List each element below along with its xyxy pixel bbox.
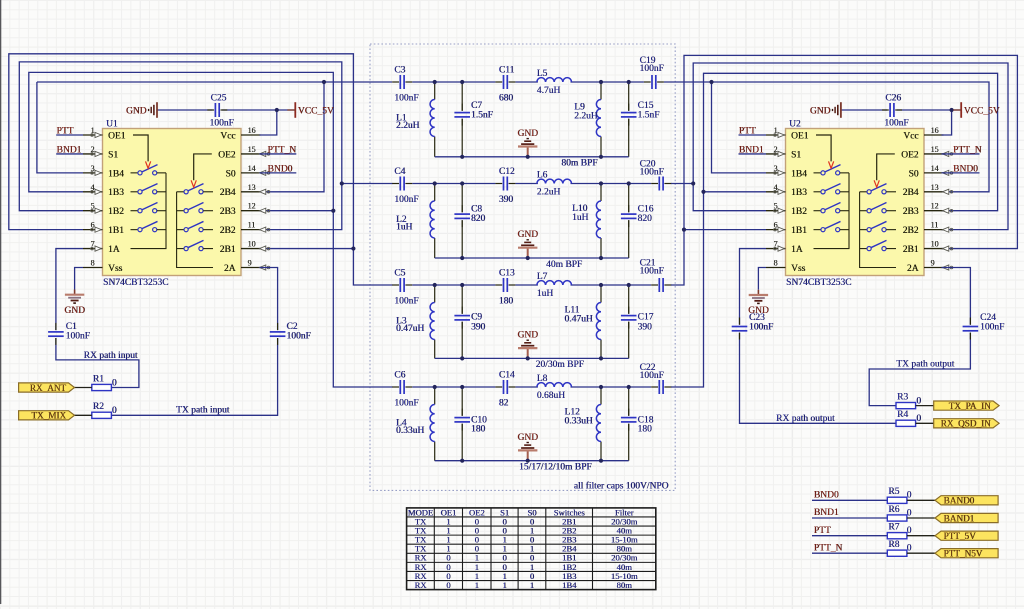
svg-text:L6: L6 — [537, 171, 548, 181]
inductor L7 — [537, 281, 572, 285]
wire 20/30m BPF shunt left capacitor branch — [461, 285, 463, 314]
svg-text:PTT_N5V: PTT_N5V — [944, 549, 983, 559]
wire U2 pin3 1B4 up to 80m row — [712, 82, 767, 173]
svg-text:0.47uH: 0.47uH — [396, 324, 424, 334]
svg-text:1B4: 1B4 — [562, 580, 577, 590]
svg-text:R3: R3 — [897, 392, 908, 402]
capacitor C26 — [890, 103, 894, 117]
switch 2B4 internal — [177, 191, 184, 193]
svg-text:4.7uH: 4.7uH — [537, 86, 561, 96]
svg-text:S0: S0 — [908, 169, 918, 179]
pin 3 1B4 — [83, 172, 103, 174]
svg-text:Vss: Vss — [108, 264, 123, 274]
svg-text:2B1: 2B1 — [220, 245, 236, 255]
capacitor C15 — [621, 113, 637, 117]
svg-text:40m BPF: 40m BPF — [546, 260, 582, 270]
svg-text:Vss: Vss — [791, 264, 806, 274]
pin 9 2A — [241, 267, 261, 269]
svg-text:1B4: 1B4 — [791, 169, 807, 179]
svg-text:1uH: 1uH — [396, 222, 413, 232]
wire 20/30m BPF row main line — [412, 284, 495, 286]
junction 40m BPF row / L2 — [433, 181, 437, 185]
svg-text:GND: GND — [517, 331, 538, 341]
svg-text:R8: R8 — [888, 540, 899, 550]
inductor L9 — [596, 100, 601, 137]
port RX_QSD_IN — [934, 419, 999, 428]
wire 20/30m BPF shunt right capacitor branch — [628, 285, 630, 314]
wire 40m BPF ground rail — [435, 257, 629, 259]
svg-text:SN74CBT3253C: SN74CBT3253C — [786, 278, 851, 288]
svg-text:GND: GND — [517, 433, 538, 443]
svg-text:R4: R4 — [897, 410, 908, 420]
svg-text:2B3: 2B3 — [220, 207, 236, 217]
pin 12 2B3 — [924, 210, 944, 212]
resistor R2 — [92, 412, 112, 418]
svg-text:GND: GND — [810, 106, 831, 116]
junction 80m BPF rail / C7 — [460, 155, 464, 159]
wire 20/30m BPF shunt right inductor branch — [600, 285, 602, 303]
svg-text:180: 180 — [638, 425, 653, 435]
pin 6 1B1 — [83, 229, 103, 231]
pin 11 2B2 — [924, 229, 944, 231]
ground GND power port at C25 — [149, 102, 157, 118]
wire U1 pin13 2B4 up to 80m row — [260, 82, 325, 192]
port BAND0 — [935, 496, 998, 505]
pin 4 1B3 — [766, 191, 786, 193]
wire VCC_5V rail U2 — [841, 109, 887, 111]
svg-text:1: 1 — [530, 580, 534, 590]
svg-text:390: 390 — [638, 323, 653, 333]
resistor R5 — [887, 497, 907, 503]
svg-text:R2: R2 — [93, 402, 104, 412]
junction 15-10m net / U1 2B3 — [331, 209, 335, 213]
wire 40m BPF shunt left inductor branch — [434, 184, 436, 202]
junction 15/17/12/10m BPF row / L12 — [599, 385, 603, 389]
junction 20/30m BPF row / L3 — [433, 283, 437, 287]
svg-text:BND0: BND0 — [268, 164, 293, 174]
wire U1 1A through C1 to RX path input — [56, 249, 83, 331]
pin 2 S1 — [83, 153, 103, 155]
svg-text:0: 0 — [907, 508, 912, 518]
wire U1 pin11 2B2 up to 40m row — [260, 184, 342, 230]
resistor R4 — [896, 420, 916, 426]
svg-text:BND0: BND0 — [814, 491, 839, 501]
inductor L8 — [537, 383, 572, 387]
net label PTT_N (U1 OE2) — [260, 153, 297, 155]
wire 15/17/12/10m BPF ground rail — [435, 460, 629, 462]
capacitor C10 — [454, 418, 470, 422]
wire U1 pin12 2B3 to 15-10m net vertical — [260, 210, 334, 212]
svg-text:VCC_5V: VCC_5V — [298, 106, 334, 116]
inductor L6 — [537, 179, 572, 183]
svg-text:RX path input: RX path input — [84, 351, 138, 361]
junction 40m BPF row / C8 — [460, 181, 464, 185]
svg-text:0: 0 — [907, 526, 912, 536]
ground 20/30m BPF — [527, 357, 529, 359]
op-amp U2 body SN74CBT3253C — [786, 129, 925, 276]
svg-text:all filter caps 100V/NPO: all filter caps 100V/NPO — [574, 480, 669, 491]
pin 5 1B2 — [83, 210, 103, 212]
wire PTT to R7 — [812, 535, 887, 537]
svg-text:1B3: 1B3 — [108, 188, 124, 198]
port RX_ANT — [19, 383, 75, 392]
svg-text:U1: U1 — [106, 119, 118, 129]
svg-text:8: 8 — [91, 259, 95, 268]
net label BND1 (U2 S1) — [739, 153, 767, 155]
svg-text:C11: C11 — [499, 65, 515, 75]
svg-text:0: 0 — [907, 544, 912, 554]
junction 40m BPF row / C16 — [627, 181, 631, 185]
svg-text:C1: C1 — [66, 322, 77, 332]
svg-text:PTT_5V: PTT_5V — [944, 531, 977, 541]
switch 1B2 internal — [131, 210, 138, 212]
wire U1 pin6 1B1 loop to 20/30m BPF row input — [9, 54, 393, 285]
svg-text:C2: C2 — [286, 322, 297, 332]
svg-text:80m: 80m — [617, 580, 633, 590]
wire U2 pin4 1B3 to 15-10m net vertical — [704, 191, 767, 193]
pin 9 2A — [924, 267, 944, 269]
resistor R8 — [887, 550, 907, 556]
junction 15/17/12/10m BPF rail / L12 — [599, 459, 603, 463]
pin 11 2B2 — [241, 229, 261, 231]
switch common bus 2A — [177, 192, 213, 268]
svg-text:0: 0 — [112, 406, 117, 416]
svg-text:0: 0 — [916, 414, 921, 424]
junction 15/17/12/10m BPF row / L4 — [433, 385, 437, 389]
svg-text:13: 13 — [248, 183, 256, 192]
pin 14 S0 — [241, 172, 261, 174]
svg-text:C14: C14 — [499, 370, 515, 380]
svg-text:L8: L8 — [537, 374, 548, 384]
pin 8 Vss — [83, 267, 103, 269]
junction 15/17/12/10m BPF row / C10 — [460, 385, 464, 389]
svg-text:PTT_N: PTT_N — [268, 145, 297, 155]
capacitor C12 — [504, 177, 508, 191]
wire R3 to TX_PA_IN — [916, 405, 934, 407]
pin 10 2B1 — [924, 248, 944, 250]
svg-text:PTT: PTT — [57, 127, 74, 137]
capacitor C16 — [621, 214, 637, 218]
wire U2 pin5 1B2 up to 40m row — [693, 184, 766, 211]
wire RX_ANT to R1 — [75, 387, 92, 389]
junction 40m BPF rail / ground — [526, 256, 530, 260]
junction 20/30m BPF row / L11 — [599, 283, 603, 287]
svg-text:TX_MIX: TX_MIX — [31, 411, 66, 421]
wire U2 1A through C23 to RX path output — [740, 249, 767, 325]
resistor R1 — [92, 384, 112, 390]
wire U2 pin11 2B2 loop to 40m BPF row output — [693, 63, 1008, 230]
svg-text:0.68uH: 0.68uH — [537, 391, 565, 401]
capacitor C14 — [504, 380, 508, 394]
junction VCC_5V / U2 Vcc — [950, 108, 954, 112]
port PTT_N5V — [935, 549, 998, 558]
svg-text:14: 14 — [931, 164, 939, 173]
capacitor C3 — [400, 75, 404, 89]
svg-text:2.2uH: 2.2uH — [396, 121, 420, 131]
ground U2 — [749, 290, 768, 304]
svg-text:2B4: 2B4 — [220, 188, 236, 198]
svg-text:10: 10 — [248, 240, 256, 249]
svg-text:OE1: OE1 — [791, 131, 809, 141]
junction 20/30m net / U1 2B1 — [351, 246, 355, 250]
inductor L5 — [537, 78, 572, 82]
capacitor C18 — [621, 418, 637, 422]
svg-text:0: 0 — [446, 580, 450, 590]
capacitor C23 — [732, 327, 748, 331]
wire 80m BPF row main line — [37, 81, 392, 83]
svg-text:15/17/12/10m BPF: 15/17/12/10m BPF — [519, 463, 592, 473]
svg-text:13: 13 — [931, 183, 939, 192]
svg-text:GND: GND — [64, 306, 85, 316]
net label PTT (U2 OE1) — [739, 134, 767, 136]
svg-text:L5: L5 — [537, 69, 548, 79]
capacitor C7 — [454, 113, 470, 117]
junction 80m BPF rail / ground — [526, 155, 530, 159]
svg-text:180: 180 — [471, 425, 486, 435]
svg-text:1.5nF: 1.5nF — [471, 110, 493, 120]
switch 1B1 internal — [131, 229, 138, 231]
svg-text:2B2: 2B2 — [220, 226, 236, 236]
svg-text:2B3: 2B3 — [903, 207, 919, 217]
junction 80m BPF row / C15 — [627, 80, 631, 84]
junction 80m row / U1 2B4 — [322, 80, 326, 84]
junction 40m BPF rail / L10 — [599, 256, 603, 260]
inductor L1 — [430, 100, 435, 137]
wire 80m BPF shunt right capacitor branch — [628, 82, 630, 111]
select line OE2 with arrow — [877, 154, 895, 180]
wire 20/30m BPF ground rail — [435, 357, 629, 359]
port BAND1 — [935, 513, 998, 522]
junction 15/17/12/10m BPF rail / C10 — [460, 459, 464, 463]
svg-text:100nF: 100nF — [640, 168, 664, 178]
wire 15/17/12/10m BPF shunt right inductor branch — [600, 387, 602, 405]
wire 80m BPF ground rail — [435, 156, 629, 158]
svg-text:C16: C16 — [638, 205, 654, 215]
svg-text:82: 82 — [499, 399, 509, 409]
svg-text:1A: 1A — [108, 245, 120, 255]
svg-text:1.5nF: 1.5nF — [638, 110, 660, 120]
switch 2B3 internal — [177, 210, 184, 212]
pin 6 1B1 — [766, 229, 786, 231]
junction 20/30m BPF row / C9 — [460, 283, 464, 287]
net label BND0 (U1 S0) — [260, 172, 297, 174]
svg-text:TX path output: TX path output — [896, 360, 954, 370]
junction 20/30m BPF row / C17 — [627, 283, 631, 287]
wire U2 pin12 2B3 loop to 15/17/12/10m BPF row output — [671, 73, 998, 387]
wire U1 pin4 1B3 loop to 15/17/12/10m BPF row input — [29, 72, 393, 387]
port TX_MIX — [19, 411, 75, 420]
junction 80m row / U2 1B4 — [709, 80, 713, 84]
svg-text:BND1: BND1 — [739, 145, 764, 155]
svg-text:OE2: OE2 — [218, 150, 236, 160]
wire R7 to port PTT_5V — [907, 535, 935, 537]
inductor L11 — [596, 303, 601, 340]
wire U1 2A through C2 to TX path input — [260, 268, 278, 331]
junction 80m BPF row / C7 — [460, 80, 464, 84]
switch 2B2 internal — [177, 229, 184, 231]
port TX_PA_IN — [934, 401, 999, 410]
inductor L12 — [596, 405, 601, 442]
svg-text:0.47uH: 0.47uH — [564, 315, 592, 325]
pin 10 2B1 — [241, 248, 261, 250]
svg-text:PTT: PTT — [814, 526, 831, 536]
inductor L3 — [430, 303, 435, 340]
svg-text:1B2: 1B2 — [108, 207, 124, 217]
wire 15/17/12/10m BPF shunt left inductor branch — [434, 387, 436, 405]
capacitor C8 — [454, 214, 470, 218]
svg-text:2A: 2A — [907, 264, 919, 274]
pin 1 OE1 — [766, 134, 786, 136]
capacitor C21 — [659, 278, 663, 292]
svg-text:2.2uH: 2.2uH — [574, 112, 598, 122]
junction 20/30m net / U2 1B1 — [682, 228, 686, 232]
svg-text:2B1: 2B1 — [903, 245, 919, 255]
svg-text:Vcc: Vcc — [220, 131, 235, 141]
pin 16 Vcc — [924, 134, 944, 136]
wire U1 pin10 2B1 to 20/30m net vertical — [260, 248, 354, 250]
svg-text:1B1: 1B1 — [791, 226, 807, 236]
svg-text:100nF: 100nF — [749, 323, 773, 333]
switch 1B2 internal — [814, 210, 821, 212]
wire U1 pin5 1B2 loop to 40m BPF row input — [19, 62, 342, 211]
resistor R3 — [896, 403, 916, 409]
switch common bus 2A — [860, 192, 896, 268]
pin 12 2B3 — [241, 210, 261, 212]
svg-text:TX_PA_IN: TX_PA_IN — [949, 401, 991, 411]
svg-text:BAND1: BAND1 — [944, 513, 975, 523]
svg-text:U2: U2 — [789, 119, 801, 129]
switch common bus 1A — [131, 173, 167, 249]
wire 40m BPF shunt right inductor branch — [600, 184, 602, 202]
svg-text:0.33uH: 0.33uH — [564, 417, 592, 427]
svg-text:11: 11 — [248, 221, 256, 230]
svg-text:680: 680 — [499, 94, 514, 104]
pin 7 1A — [83, 248, 103, 250]
pin 8 Vss — [766, 267, 786, 269]
inductor L2 — [430, 201, 435, 238]
junction 20/30m BPF rail / L11 — [599, 356, 603, 360]
svg-text:RX_ANT: RX_ANT — [30, 383, 67, 393]
pin 14 S0 — [924, 172, 944, 174]
wire 15/17/12/10m BPF shunt right capacitor branch — [628, 387, 630, 416]
pin 15 OE2 — [241, 153, 261, 155]
capacitor C22 — [659, 380, 663, 394]
svg-text:820: 820 — [638, 214, 653, 224]
switch 1B3 internal — [131, 191, 138, 193]
wire 80m BPF shunt right inductor branch — [600, 82, 602, 100]
svg-text:S0: S0 — [225, 169, 235, 179]
svg-text:S1: S1 — [791, 150, 801, 160]
wire 15/17/12/10m BPF shunt left capacitor branch — [461, 387, 463, 416]
svg-text:R1: R1 — [93, 374, 104, 384]
pin 1 OE1 — [83, 134, 103, 136]
svg-text:BND1: BND1 — [814, 508, 839, 518]
junction 20/30m BPF rail / C9 — [460, 356, 464, 360]
capacitor C5 — [400, 278, 404, 292]
pin 7 1A — [766, 248, 786, 250]
svg-text:C13: C13 — [499, 268, 515, 278]
resistor R6 — [887, 515, 907, 521]
capacitor C20 — [659, 177, 663, 191]
svg-text:20/30m BPF: 20/30m BPF — [536, 360, 584, 370]
svg-text:100nF: 100nF — [640, 267, 664, 277]
svg-text:12: 12 — [931, 202, 939, 211]
junction 80m BPF row / L9 — [599, 80, 603, 84]
junction 15-10m net / U2 1B3 — [701, 190, 705, 194]
switch 2B2 internal — [860, 229, 867, 231]
svg-text:GND: GND — [517, 230, 538, 240]
svg-text:C8: C8 — [471, 205, 482, 215]
capacitor C25 — [215, 103, 219, 117]
svg-text:820: 820 — [471, 214, 486, 224]
wire U2 Vss to ground — [758, 268, 766, 290]
filter section boundary (dotted box) — [370, 44, 675, 490]
svg-text:11: 11 — [931, 221, 939, 230]
pin 2 S1 — [766, 153, 786, 155]
svg-text:14: 14 — [248, 164, 256, 173]
svg-text:TX path input: TX path input — [176, 406, 230, 416]
op-amp U1 body SN74CBT3253C — [103, 129, 242, 276]
junction 80m BPF row / L1 — [433, 80, 437, 84]
svg-text:100nF: 100nF — [394, 399, 418, 409]
svg-text:100nF: 100nF — [640, 64, 664, 74]
wire 20/30m BPF shunt left inductor branch — [434, 285, 436, 303]
switch 1B4 internal — [814, 172, 821, 174]
svg-text:RX: RX — [414, 580, 427, 590]
svg-text:C17: C17 — [638, 313, 654, 323]
svg-text:R7: R7 — [888, 523, 899, 533]
wire U1 Vss to ground — [75, 268, 83, 290]
wire U2 pin10 2B1 loop to 20/30m BPF row output — [671, 55, 1017, 285]
svg-text:0: 0 — [916, 396, 921, 406]
svg-text:RX_QSD_IN: RX_QSD_IN — [941, 419, 991, 429]
select line OE2 with arrow — [194, 154, 212, 180]
svg-text:1B1: 1B1 — [108, 226, 124, 236]
svg-text:PTT_N: PTT_N — [814, 543, 843, 553]
svg-text:2B2: 2B2 — [903, 226, 919, 236]
svg-text:1: 1 — [502, 580, 506, 590]
svg-text:C5: C5 — [394, 268, 405, 278]
pin 15 OE2 — [924, 153, 944, 155]
switch common bus 1A — [814, 173, 850, 249]
svg-text:VCC_5V: VCC_5V — [964, 106, 1000, 116]
net label BND1 (U1 S1) — [56, 153, 83, 155]
svg-text:SN74CBT3253C: SN74CBT3253C — [103, 278, 168, 288]
svg-text:15: 15 — [248, 145, 256, 154]
junction 40m BPF rail / C8 — [460, 256, 464, 260]
port PTT_5V — [935, 531, 998, 540]
svg-text:390: 390 — [471, 323, 486, 333]
switch 2B1 internal — [860, 248, 867, 250]
wire R4 to RX_QSD_IN — [916, 422, 934, 424]
capacitor C11 — [504, 75, 508, 89]
power port VCC_5V left — [294, 102, 296, 118]
svg-text:C6: C6 — [394, 370, 405, 380]
wire 80m row to U2 side — [664, 81, 712, 83]
wire R6 to port BAND1 — [907, 517, 935, 519]
net label PTT_N (U2 OE2) — [942, 153, 980, 155]
svg-text:1uH: 1uH — [572, 213, 589, 223]
svg-text:C9: C9 — [471, 313, 482, 323]
capacitor C4 — [400, 177, 404, 191]
ground 15/17/12/10m BPF — [527, 460, 529, 462]
svg-text:PTT: PTT — [739, 127, 756, 137]
wire U1 pin3 1B4 loop to 80m BPF row input — [37, 82, 83, 173]
svg-text:S1: S1 — [108, 150, 118, 160]
pin 3 1B4 — [766, 172, 786, 174]
svg-text:16: 16 — [248, 126, 256, 135]
svg-text:C26: C26 — [885, 93, 901, 103]
